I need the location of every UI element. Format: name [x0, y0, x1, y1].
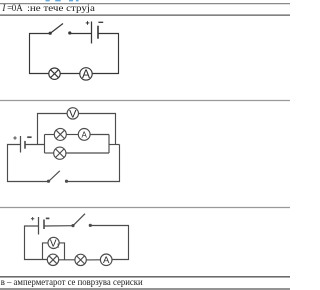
wire: top branch left [45, 134, 55, 136]
switch S2 pivot dot [47, 180, 50, 183]
battery B2 plus label [13, 136, 16, 139]
wire: block stub to right edge [109, 144, 120, 146]
svg-text:A: A [82, 67, 90, 81]
svg-text:V: V [69, 108, 77, 120]
voltmeter V2 circle [67, 108, 78, 119]
switch S2 blade [49, 171, 60, 182]
wire: left side loop [25, 226, 48, 260]
svg-text:A: A [103, 255, 110, 266]
battery B2 long plate [20, 136, 22, 153]
wire: battery to parallel block [25, 144, 45, 146]
lamp L4 [47, 254, 58, 265]
svg-text:1: 1 [57, 244, 60, 250]
lamp L3 bottom [54, 147, 66, 159]
wire: battery to right edge down to bottom [92, 34, 119, 74]
lamp L2 top [54, 128, 66, 140]
battery B1 plus label [86, 21, 90, 25]
wire: battery left lead and left side down to bottom switch [8, 145, 49, 182]
wire: lamp L1 to ammeter A1 [60, 73, 79, 75]
battery B3 minus label [46, 217, 50, 219]
battery B1 minus label [98, 21, 103, 23]
wire: bottom branch right [66, 152, 109, 154]
separator 1 [0, 100, 290, 102]
switch S1 contact dot [68, 31, 71, 34]
battery B3 short plate [43, 220, 45, 230]
svg-text:в – амперметарот се поврзува с: в – амперметарот се поврзува сериски [1, 277, 143, 287]
switch S3 contact dot [89, 224, 92, 227]
battery B2 minus label [27, 136, 31, 138]
parallel block right vertical [108, 135, 110, 154]
switch S1 blade [50, 24, 63, 34]
battery B3 plus label [31, 217, 34, 220]
switch S2 contact dot [65, 180, 68, 183]
battery B2 short plate [24, 141, 26, 149]
separator 2 [0, 207, 290, 209]
ammeter A1 circle [80, 68, 92, 80]
cut-off blue text remnants [46, 0, 79, 2]
bottom border line [0, 288, 290, 290]
wire: ammeter to block right [90, 134, 109, 136]
parallel block left vertical [44, 135, 46, 154]
battery B3 long plate [38, 217, 40, 235]
wire: lamp L4 to lamp L5 [59, 259, 75, 261]
wire: circuit1 left side [30, 34, 51, 74]
wire: switch to right edge down [91, 226, 129, 260]
wire: lamp to ammeter [66, 134, 78, 136]
battery B1 short plate [97, 26, 99, 39]
voltmeter loop right side [79, 114, 116, 145]
wire: right vertical down to bottom [67, 145, 120, 182]
voltmeter V3 circle [48, 237, 59, 248]
svg-text:I=0A:не тече струја: I=0A:не тече струја [1, 3, 95, 13]
ammeter A3 circle [100, 254, 112, 266]
voltmeter loop around lamp L4 [43, 243, 49, 260]
ammeter A2 circle [78, 129, 90, 141]
voltmeter loop left vertical [38, 114, 68, 145]
switch S1 pivot dot [49, 32, 52, 35]
wire: battery to switch [44, 225, 73, 227]
switch S3 blade [73, 214, 85, 226]
rule under heading [0, 14, 290, 16]
top border line [0, 3, 290, 5]
wire: lamp L5 to ammeter A3 [86, 259, 100, 261]
battery B1 long plate [91, 22, 93, 44]
lamp L1 [49, 68, 60, 79]
rule above answer text [0, 276, 290, 278]
lamp L5 [75, 254, 86, 265]
switch S3 pivot dot [71, 224, 74, 227]
wire: bottom branch left [45, 152, 54, 154]
svg-text:A: A [82, 130, 88, 139]
wire: switch to battery [70, 33, 92, 35]
